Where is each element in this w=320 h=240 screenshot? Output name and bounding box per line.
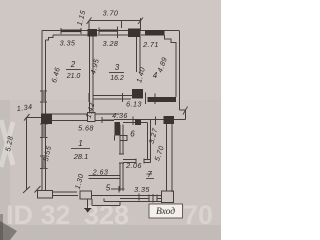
dimension 5.28 vertical line xyxy=(26,118,28,191)
svg-text:3.35: 3.35 xyxy=(60,39,76,48)
tick 1.34 left xyxy=(24,114,30,121)
pier entrance outline xyxy=(80,191,92,199)
inner top wall xyxy=(53,34,145,36)
left inner wall xyxy=(45,40,47,114)
dimension 3.70 line top xyxy=(89,18,141,31)
svg-text:2.63: 2.63 xyxy=(92,168,109,177)
tick near room4 door xyxy=(145,93,147,105)
room 6 right wall xyxy=(148,120,151,163)
dark corner blob bottom-left xyxy=(0,221,17,240)
room 6 top wall xyxy=(114,120,164,123)
window room1 left upper xyxy=(43,124,46,138)
svg-text:2.06: 2.06 xyxy=(125,161,142,170)
right-side hook below room 4 xyxy=(174,110,186,120)
right wall lower outer xyxy=(167,124,173,192)
window room 3 ticks xyxy=(99,27,118,39)
pier bottom-right outline xyxy=(162,191,174,203)
top-right corner step xyxy=(165,35,177,97)
tick at 3.70 left end xyxy=(87,18,92,25)
tick 6.13 mid xyxy=(122,93,124,102)
svg-text:ID 32: ID 32 xyxy=(6,200,71,230)
bottom wall right of entrance xyxy=(92,196,162,199)
tick at room1 bottom corner xyxy=(35,186,41,193)
svg-text:4: 4 xyxy=(153,71,158,80)
outer top wall xyxy=(42,30,180,32)
svg-text:3: 3 xyxy=(115,63,120,72)
entrance label box xyxy=(149,204,183,218)
window room1 left lower xyxy=(43,156,46,169)
left outer wall xyxy=(41,31,43,191)
jambs room6 door xyxy=(136,159,144,164)
paper background xyxy=(0,0,221,240)
pier on room1 top wall (outlined) xyxy=(88,113,96,122)
top-left corner step xyxy=(46,35,54,40)
svg-text:328: 328 xyxy=(84,200,129,230)
watermark left ghost xyxy=(1,120,13,167)
svg-text:5: 5 xyxy=(106,184,111,193)
pier rooms 2/3 xyxy=(88,29,98,37)
window room 2 ticks xyxy=(61,28,81,34)
window lintel room 3 xyxy=(99,30,118,32)
tick right of room4 wall xyxy=(154,94,156,105)
dimension 1.34 line xyxy=(27,117,42,119)
niche notch on wall xyxy=(115,136,128,141)
tick 3.35 bottom xyxy=(138,194,140,201)
tick 5.28 bottom xyxy=(23,187,30,194)
room 1 bottom wall xyxy=(53,192,79,196)
svg-text:2: 2 xyxy=(70,60,76,69)
tick at 3.70 right end xyxy=(138,18,143,25)
svg-text:70: 70 xyxy=(183,200,213,230)
wall room2/room3 xyxy=(90,37,94,114)
room 1 / room 2 thick wall xyxy=(52,114,120,121)
window room2 left wall xyxy=(43,91,46,102)
pier rooms 3/4 xyxy=(128,29,141,38)
window ticks left wall xyxy=(40,91,48,169)
porch step lines xyxy=(92,199,162,206)
room 6 bottom wall xyxy=(123,160,151,163)
svg-text:7: 7 xyxy=(147,170,152,179)
svg-text:5.68: 5.68 xyxy=(78,124,94,133)
svg-text:21.0: 21.0 xyxy=(66,73,81,80)
pier room6 top wall xyxy=(135,120,141,126)
ticks 4.36 xyxy=(102,117,156,126)
tick 6.13 left xyxy=(88,93,90,102)
pier bottom-left outline xyxy=(38,191,53,199)
solid dark piers and window lintels xyxy=(41,29,176,169)
svg-text:1: 1 xyxy=(78,139,82,148)
room 5 top wall xyxy=(89,176,121,179)
pier room1 top-left xyxy=(41,114,52,125)
door jambs room1/room7 xyxy=(119,154,124,163)
pier right wall top xyxy=(164,116,175,124)
svg-text:6: 6 xyxy=(130,130,135,139)
watermark big digits bottom xyxy=(6,200,213,230)
room 1 left inner wall xyxy=(45,124,47,191)
corridor top wall (below rooms 3,4) xyxy=(93,96,136,100)
room 4 bottom wall solid xyxy=(148,97,177,102)
pier room6 left top xyxy=(115,122,121,136)
window lintel room 2 xyxy=(61,30,81,33)
svg-text:Вход: Вход xyxy=(156,206,175,217)
right outer wall room 4 xyxy=(179,31,181,110)
svg-text:2.71: 2.71 xyxy=(142,40,159,49)
svg-text:6.13: 6.13 xyxy=(126,100,142,109)
dimension 4.36 line xyxy=(102,119,114,121)
svg-text:3.35: 3.35 xyxy=(134,185,150,194)
pier rooms3/4 bottom xyxy=(132,89,143,99)
svg-text:4.36: 4.36 xyxy=(112,111,128,120)
door jamb entrance xyxy=(149,194,157,203)
tick on hook xyxy=(183,107,188,115)
svg-text:3.70: 3.70 xyxy=(103,9,119,18)
wall room1/room6-7 vertical xyxy=(120,125,123,192)
wall room3/room4 upper xyxy=(137,37,141,72)
svg-text:3.28: 3.28 xyxy=(103,39,119,48)
svg-text:28.1: 28.1 xyxy=(73,152,89,161)
entrance arrow xyxy=(87,200,89,209)
svg-text:16.2: 16.2 xyxy=(110,75,124,82)
dimension 5 leader xyxy=(111,186,125,193)
window lintel room 4 xyxy=(145,30,165,36)
